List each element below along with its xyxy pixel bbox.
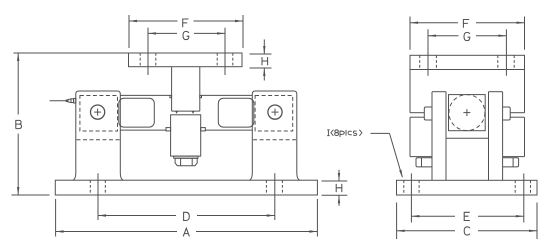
dimension E [411,212,523,220]
inner box [449,95,486,131]
top plate [129,53,243,67]
hex nut [175,158,197,166]
dimension A [56,199,318,237]
hidden pin circle [449,95,485,131]
washer [174,156,198,158]
top plate hidden hole lines [140,53,233,67]
stem top notches [170,95,172,97]
left pocket [119,98,155,127]
right pedestal bolt circle [268,105,282,119]
dimension G (left view) [148,31,225,39]
dimension H (base plate thickness) [322,170,348,206]
base hidden holes (right view) [404,180,531,195]
side tabs [424,107,432,120]
dimension C [397,203,537,240]
stand pillars [431,92,433,181]
dimension D [98,212,275,220]
body outer edges [409,70,411,113]
top plate (right view) [410,55,525,69]
saddle line [446,137,489,139]
left pedestal bolt circle [91,105,105,119]
hole centerlines / D extension [97,173,99,220]
beam bottom edge [120,129,166,131]
hole centerlines / E extension [410,173,412,222]
pinch lines [410,112,424,114]
dimension F (right view) [410,17,525,50]
center stem [171,67,173,111]
base plate hidden holes [90,180,282,195]
base plate (right view) [397,180,538,195]
center block [171,115,201,156]
dimension F (left view) [129,15,243,48]
right pedestal [249,91,299,180]
base plate (left view) [55,180,317,195]
right pocket [218,98,254,127]
block side tabs [166,128,171,131]
top plate hidden holes (right view) [420,55,515,69]
side bolts [416,158,432,167]
right pedestal hidden rect [253,96,296,140]
dimension H (top plate thickness) [250,39,272,80]
load button ticks [175,111,178,113]
left pedestal [73,91,124,180]
left pedestal hidden rect [77,96,120,140]
beam top edge [120,94,170,96]
cable connector [50,100,67,102]
label I(8plcs) with leader [327,130,403,179]
dimension G (right view) [428,32,506,40]
top plate hole centerlines (G extension) [147,28,149,75]
hole centerlines (G extension, right view) [427,29,429,75]
dimension B [12,53,129,195]
body bottom edges [410,156,432,158]
